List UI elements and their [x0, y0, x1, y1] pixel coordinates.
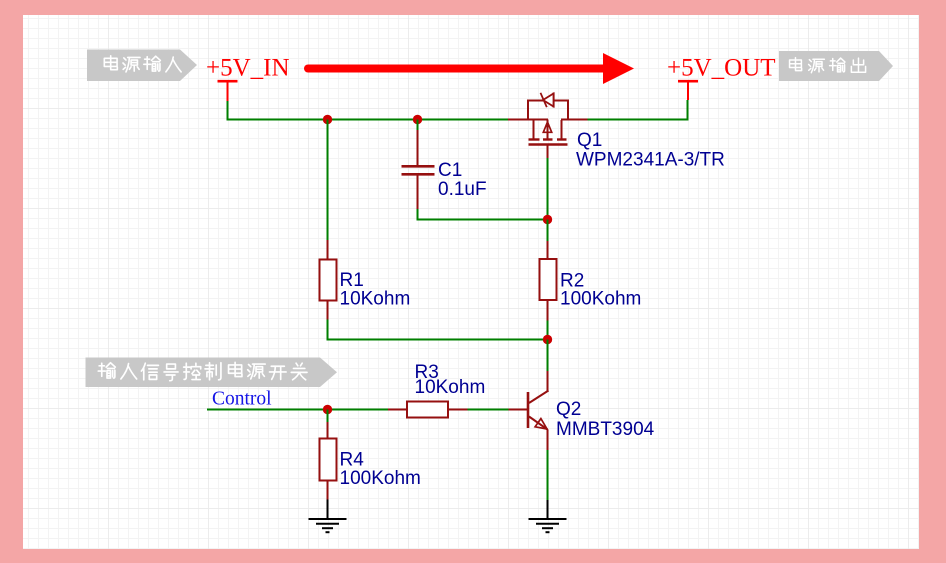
wire R2 top: [547, 220, 549, 242]
wire Q1 gate down to C1/R2 node: [547, 158, 549, 220]
wire Control to R3: [207, 409, 388, 411]
wire +5V_IN down to main rail: [227, 101, 229, 119]
resistor R4: [320, 410, 337, 500]
power port +5V_IN: [206, 55, 290, 102]
svg-text:Q2: Q2: [556, 399, 581, 420]
power port +5V_OUT: [667, 55, 776, 101]
svg-text:10Kohm: 10Kohm: [415, 377, 486, 398]
banner power-input 电源输入: [87, 50, 197, 82]
svg-text:0.1uF: 0.1uF: [438, 179, 487, 200]
junction node C1/R2/Q1: [543, 215, 552, 224]
svg-text:C1: C1: [438, 160, 462, 181]
svg-text:Q1: Q1: [577, 130, 602, 151]
wire C1 bottom to node: [417, 209, 548, 220]
svg-text:MMBT3904: MMBT3904: [556, 419, 655, 440]
wire R2 bottom: [547, 321, 549, 340]
wire up to +5V_OUT: [687, 100, 689, 121]
wire node down to Q2 collector: [547, 340, 549, 372]
wire R1 top: [327, 120, 329, 241]
svg-text:+5V_IN: +5V_IN: [206, 55, 290, 82]
big red flow arrow: [308, 53, 634, 84]
wire Q2 emitter down: [547, 450, 549, 500]
transistor Q2 NPN: [509, 371, 549, 450]
wire main rail left segment: [227, 119, 510, 121]
junction node R1 top: [323, 115, 332, 124]
banner power-output 电源输出: [779, 51, 893, 81]
junction node C1 top: [413, 115, 422, 124]
banner control 输入信号控制电源开关: [86, 358, 338, 388]
resistor R2: [540, 241, 557, 321]
svg-text:Control: Control: [212, 389, 272, 410]
resistor R3: [388, 402, 468, 418]
capacitor C1: [402, 120, 435, 210]
svg-text:+5V_OUT: +5V_OUT: [667, 55, 776, 82]
svg-text:100Kohm: 100Kohm: [560, 289, 641, 310]
wire R3 to Q2 base: [468, 409, 509, 411]
transistor Q1 P-MOSFET: [508, 93, 588, 158]
ground G2 (Q2 emitter): [529, 500, 567, 532]
svg-text:10Kohm: 10Kohm: [340, 289, 411, 310]
junction node R4 top: [323, 405, 332, 414]
resistor R1: [320, 240, 337, 320]
ground G1 (R4): [309, 500, 347, 533]
junction node R1/R2/Q2: [543, 335, 552, 344]
svg-text:WPM2341A-3/TR: WPM2341A-3/TR: [576, 150, 725, 171]
svg-text:100Kohm: 100Kohm: [340, 468, 421, 489]
wire R1 bottom to node row: [327, 320, 548, 340]
wire main rail right segment: [587, 119, 688, 121]
